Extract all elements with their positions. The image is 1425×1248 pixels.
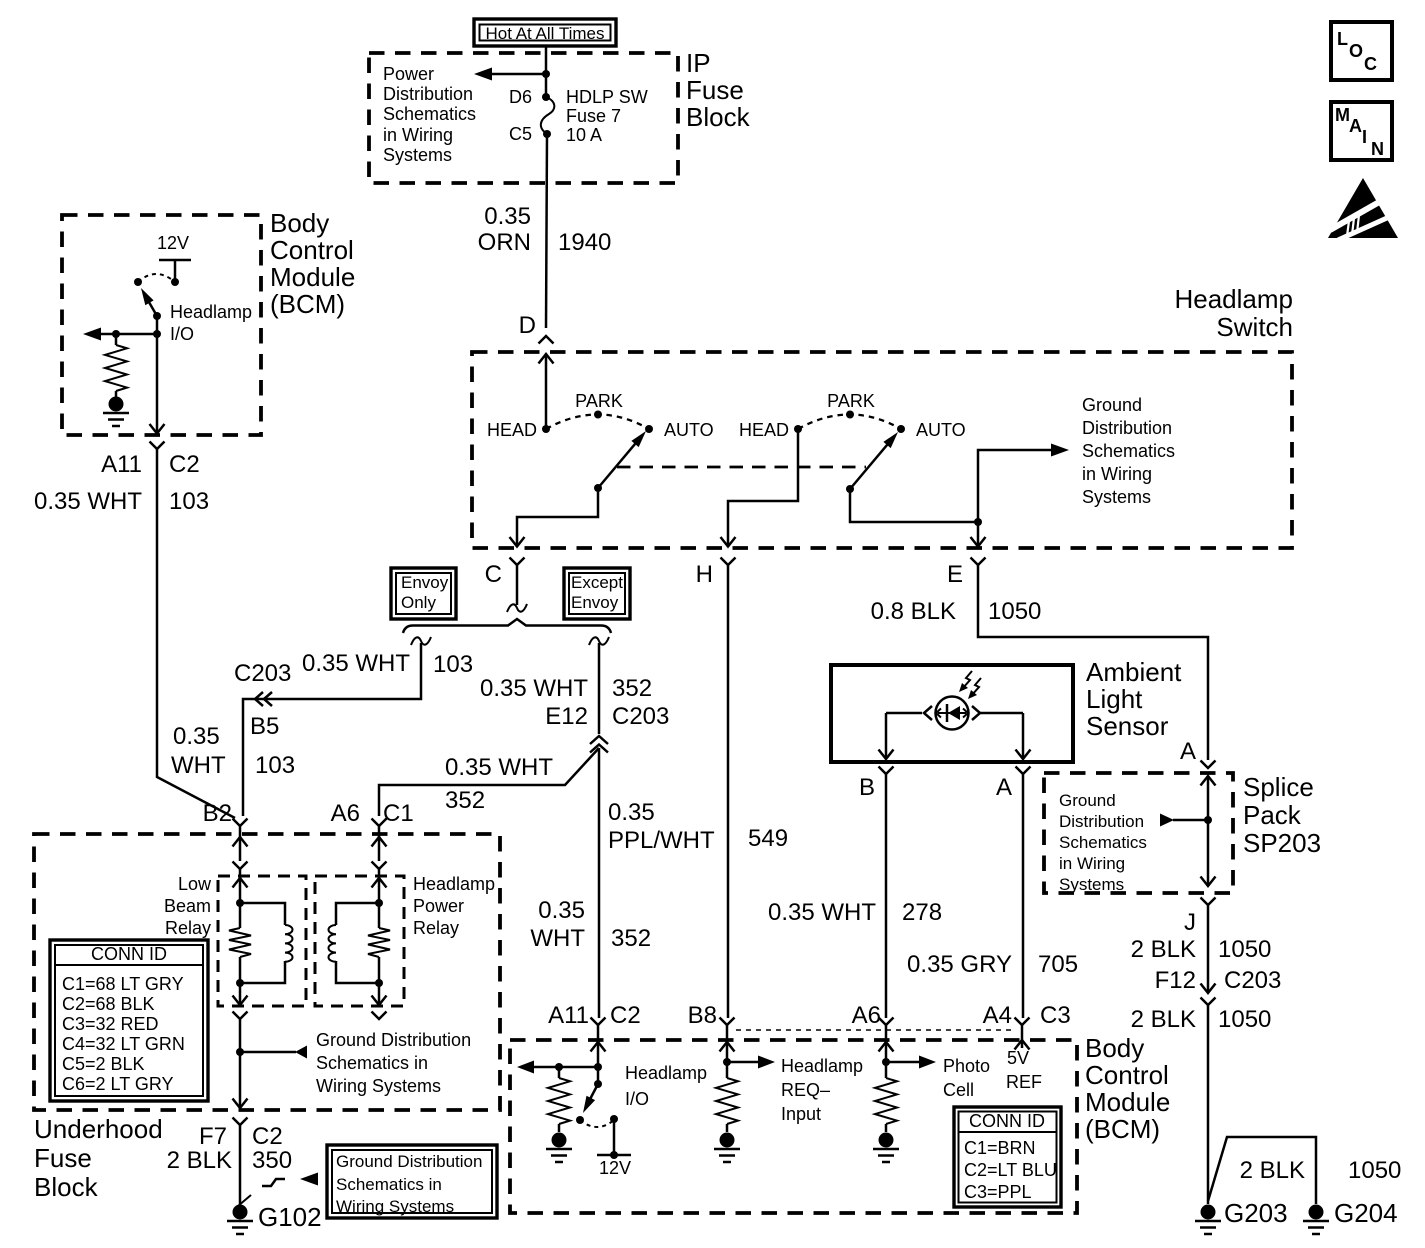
reference arrow right — [1051, 444, 1069, 457]
wire to junction — [233, 1019, 248, 1108]
svg-text:A11: A11 — [101, 451, 142, 478]
svg-text:0.35 WHT: 0.35 WHT — [34, 488, 142, 515]
branch wire to A6/C1 underhood — [379, 748, 599, 816]
node HEAD 1 — [487, 420, 550, 440]
svg-text:1050: 1050 — [1348, 1157, 1401, 1184]
connector B8 — [688, 1002, 735, 1042]
connector C — [485, 558, 525, 589]
connector J — [1184, 898, 1216, 937]
LOC legend box — [1331, 22, 1392, 80]
svg-text:M: M — [1335, 105, 1350, 125]
svg-text:12V: 12V — [157, 233, 189, 253]
hp relay winding resistor — [368, 869, 390, 983]
svg-text:103: 103 — [255, 752, 295, 779]
svg-text:Only: Only — [401, 593, 436, 612]
svg-text:(BCM): (BCM) — [270, 289, 345, 319]
svg-text:C203: C203 — [234, 660, 291, 687]
svg-text:Block: Block — [686, 102, 751, 132]
svg-text:Ground Distribution: Ground Distribution — [336, 1152, 482, 1171]
relay exit arrow — [233, 983, 248, 1005]
wire label 2 BLK 1050 second — [1131, 1006, 1272, 1033]
svg-text:Envoy: Envoy — [401, 573, 449, 592]
svg-text:0.35: 0.35 — [484, 203, 531, 230]
svg-text:H: H — [696, 561, 713, 588]
svg-text:Ground Distribution: Ground Distribution — [316, 1030, 471, 1050]
svg-text:HEAD: HEAD — [739, 420, 789, 440]
svg-text:Ground: Ground — [1082, 395, 1142, 415]
svg-text:WHT: WHT — [530, 925, 585, 952]
svg-text:D6: D6 — [509, 87, 532, 107]
svg-text:B5: B5 — [250, 713, 279, 740]
pull resistor A6 — [873, 1078, 899, 1162]
svg-text:C1=68 LT GRY: C1=68 LT GRY — [62, 974, 184, 994]
svg-text:C: C — [485, 561, 502, 588]
svg-text:CONN ID: CONN ID — [91, 944, 167, 964]
note box Ground Distribution Schematics — [327, 1145, 497, 1218]
svg-text:(BCM): (BCM) — [1085, 1114, 1160, 1144]
svg-text:C2=LT BLU: C2=LT BLU — [964, 1160, 1057, 1180]
svg-text:Cell: Cell — [943, 1080, 974, 1100]
svg-text:I/O: I/O — [170, 324, 194, 344]
Underhood Fuse Block title — [34, 1114, 163, 1202]
ground G102 — [227, 1202, 322, 1234]
break squiggle left branch — [411, 637, 431, 645]
connector A4 C3 — [983, 1002, 1071, 1042]
connector A11/C2 — [101, 442, 200, 479]
wire label 0.35 WHT 352 branch — [445, 754, 553, 814]
labels C203 / 0.35 WHT / 103 — [234, 650, 473, 687]
svg-text:A: A — [996, 774, 1012, 801]
wire HEAD2 to H — [721, 429, 799, 547]
Low Beam Relay label — [164, 874, 212, 938]
svg-text:in Wiring: in Wiring — [383, 125, 453, 145]
svg-text:C2: C2 — [252, 1123, 283, 1150]
svg-text:Relay: Relay — [413, 918, 459, 938]
svg-text:5V: 5V — [1007, 1048, 1029, 1068]
svg-text:103: 103 — [169, 488, 209, 515]
inline connector C203 double chevron — [255, 692, 272, 706]
label box Except Envoy — [564, 568, 630, 619]
svg-text:350: 350 — [252, 1147, 292, 1174]
svg-text:in Wiring: in Wiring — [1059, 854, 1125, 873]
junction nodes — [375, 899, 383, 987]
svg-text:2 BLK: 2 BLK — [1131, 1006, 1196, 1033]
svg-text:Systems: Systems — [1059, 875, 1124, 894]
connector A splice — [1180, 738, 1216, 768]
Headlamp Switch title — [1174, 284, 1293, 342]
svg-text:PARK: PARK — [827, 391, 875, 411]
svg-text:C4=32 LT GRN: C4=32 LT GRN — [62, 1034, 185, 1054]
svg-text:Pack: Pack — [1243, 800, 1302, 830]
Photo Cell label — [943, 1056, 990, 1100]
node PARK 1 — [575, 391, 623, 419]
svg-text:2 BLK: 2 BLK — [1240, 1157, 1305, 1184]
svg-text:2 BLK: 2 BLK — [167, 1147, 232, 1174]
connector H — [696, 558, 736, 589]
svg-text:Schematics: Schematics — [383, 104, 476, 124]
connector F7 C2 — [199, 1118, 283, 1151]
svg-text:Relay: Relay — [165, 918, 211, 938]
svg-text:Body: Body — [270, 208, 329, 238]
svg-text:B: B — [859, 774, 875, 801]
svg-text:C5=2 BLK: C5=2 BLK — [62, 1054, 145, 1074]
reference arrow left — [83, 328, 101, 341]
wire label 2 BLK 1050 ground branch — [1240, 1157, 1402, 1184]
ESD warning triangle — [1328, 178, 1398, 240]
svg-text:Systems: Systems — [383, 145, 452, 165]
connector A6 — [852, 1002, 894, 1042]
svg-text:C1: C1 — [383, 800, 414, 827]
svg-text:E: E — [947, 561, 963, 588]
svg-text:B8: B8 — [688, 1002, 717, 1029]
svg-text:Light: Light — [1086, 684, 1143, 714]
IP fuse block dashed box — [369, 53, 678, 183]
wire label 0.35 WHT 352 — [480, 675, 652, 702]
svg-text:Splice: Splice — [1243, 772, 1314, 802]
switch throw node — [134, 278, 142, 286]
svg-text:Control: Control — [270, 235, 354, 265]
wire label 0.8 BLK 1050 — [871, 598, 1042, 625]
svg-text:Beam: Beam — [164, 896, 211, 916]
svg-text:Distribution: Distribution — [1082, 418, 1172, 438]
svg-text:0.35: 0.35 — [173, 723, 220, 750]
wire from Hot At All Times down — [545, 46, 548, 97]
svg-text:C203: C203 — [1224, 967, 1281, 994]
svg-text:WHT: WHT — [171, 752, 226, 779]
svg-text:0.35: 0.35 — [538, 897, 585, 924]
svg-text:1050: 1050 — [1218, 936, 1271, 963]
svg-text:C5: C5 — [509, 124, 532, 144]
svg-text:2 BLK: 2 BLK — [1131, 936, 1196, 963]
svg-text:A4: A4 — [983, 1002, 1012, 1029]
dashed throw arc — [138, 274, 175, 282]
svg-text:AUTO: AUTO — [916, 420, 966, 440]
pull resistor — [105, 334, 127, 391]
IP Fuse Block title — [686, 48, 751, 132]
internal reference wire left — [517, 1061, 598, 1074]
svg-text:1050: 1050 — [988, 598, 1041, 625]
ambient light sensor box — [831, 665, 1073, 762]
hp relay exit chevron — [372, 1012, 387, 1020]
svg-text:A11: A11 — [548, 1002, 589, 1029]
svg-text:Wiring Systems: Wiring Systems — [316, 1076, 441, 1096]
wire label 0.35 GRY 705 — [907, 951, 1078, 978]
svg-text:C3: C3 — [1040, 1002, 1071, 1029]
svg-text:C2=68 BLK: C2=68 BLK — [62, 994, 155, 1014]
pin D — [519, 312, 554, 344]
note Ground Distribution inside underhood — [316, 1030, 471, 1096]
splice pack dashed box — [1044, 773, 1233, 893]
svg-text:N: N — [1371, 139, 1384, 159]
junction nodes — [112, 330, 120, 338]
svg-text:G204: G204 — [1334, 1198, 1398, 1228]
svg-text:Except: Except — [571, 573, 623, 592]
D entry arrow into switch — [539, 354, 554, 429]
branch wire to G204 — [1208, 1137, 1316, 1204]
Headlamp I/O label — [170, 302, 252, 344]
svg-text:Input: Input — [781, 1104, 821, 1124]
relay exit chevron — [233, 1012, 248, 1020]
wire label 0.35 WHT 278 — [768, 899, 942, 926]
mechanical link dashed — [617, 466, 866, 469]
svg-text:Systems: Systems — [1082, 487, 1151, 507]
fuse value label — [566, 87, 648, 145]
hp relay exit arrow — [372, 983, 387, 1005]
A11 entry arrow and wire — [591, 1042, 606, 1084]
svg-text:Headlamp: Headlamp — [413, 874, 495, 894]
headlamp power relay dashed box — [315, 876, 404, 1006]
pins A6 C1 — [331, 800, 414, 827]
underhood fuse block dashed box — [34, 834, 500, 1110]
relay connector chevron — [233, 862, 248, 870]
switch arm to 12V — [576, 1080, 602, 1124]
svg-text:Wiring Systems: Wiring Systems — [336, 1197, 454, 1216]
note Power Distribution Schematics in Wiring Systems — [383, 64, 476, 165]
svg-text:A: A — [1180, 738, 1196, 765]
svg-text:Module: Module — [1085, 1087, 1170, 1117]
wire label 0.35 WHT 352 vertical — [530, 897, 651, 952]
svg-text:in Wiring: in Wiring — [1082, 464, 1152, 484]
svg-text:352: 352 — [612, 675, 652, 702]
lead down to A — [1016, 713, 1031, 759]
svg-text:Ambient: Ambient — [1086, 657, 1182, 687]
svg-text:G203: G203 — [1224, 1198, 1288, 1228]
photodiode — [936, 697, 969, 730]
pin A6 C1 entry — [372, 819, 387, 827]
svg-text:PPL/WHT: PPL/WHT — [608, 827, 715, 854]
ground inside BCM — [103, 391, 129, 426]
wire label 0.35 ORN 1940 — [478, 203, 612, 256]
svg-text:IP: IP — [686, 48, 711, 78]
Splice Pack SP203 title — [1243, 772, 1321, 858]
svg-text:Headlamp: Headlamp — [625, 1063, 707, 1083]
svg-text:Power: Power — [383, 64, 434, 84]
svg-text:A: A — [1349, 116, 1362, 136]
BCM title — [1085, 1033, 1170, 1144]
headlamp req reference arrow — [727, 1056, 775, 1069]
svg-text:HDLP SW: HDLP SW — [566, 87, 648, 107]
internal ground reference wire — [978, 450, 1052, 522]
connector B — [859, 767, 894, 802]
pull resistor A11 — [548, 1067, 570, 1132]
BCM title — [270, 208, 355, 319]
strap mark — [238, 1195, 251, 1206]
svg-text:REQ–: REQ– — [781, 1080, 830, 1100]
svg-text:J: J — [1184, 909, 1196, 936]
svg-text:C203: C203 — [612, 703, 669, 730]
svg-text:A6: A6 — [852, 1002, 881, 1029]
svg-text:0.35 WHT: 0.35 WHT — [768, 899, 876, 926]
dashed throw arc 2 — [798, 415, 901, 430]
svg-text:Photo: Photo — [943, 1056, 990, 1076]
svg-text:Fuse 7: Fuse 7 — [566, 106, 621, 126]
Headlamp REQ-Input label — [781, 1056, 863, 1124]
svg-text:L: L — [1337, 29, 1348, 49]
light rays — [959, 671, 981, 699]
splice note text — [1059, 791, 1147, 894]
svg-text:Schematics: Schematics — [1059, 833, 1147, 852]
svg-text:C3=PPL: C3=PPL — [964, 1182, 1032, 1202]
svg-text:Schematics in: Schematics in — [336, 1175, 442, 1194]
wire fuse to D — [546, 134, 547, 328]
inline connector F12 C203 — [1155, 967, 1282, 1005]
MAIN legend box — [1331, 102, 1392, 160]
dashed throw arc 1 — [546, 415, 649, 430]
wire arm2 to E — [850, 489, 986, 547]
wire E12 junction down to BCM — [598, 748, 601, 1018]
wire label 0.35 PPL/WHT 549 — [608, 799, 788, 854]
J wire down — [1207, 905, 1210, 992]
B2 entry arrow — [233, 826, 248, 861]
svg-text:Distribution: Distribution — [1059, 812, 1144, 831]
B8 entry arrow and wire — [720, 1042, 735, 1078]
svg-text:C3=32 RED: C3=32 RED — [62, 1014, 159, 1034]
svg-text:Fuse: Fuse — [686, 75, 744, 105]
pin B2 — [203, 800, 248, 827]
12V supply — [597, 1115, 631, 1178]
svg-text:F7: F7 — [199, 1123, 227, 1150]
junction nodes — [236, 899, 244, 987]
CONN ID table underhood — [50, 940, 208, 1101]
svg-text:I: I — [1362, 127, 1367, 147]
svg-text:SP203: SP203 — [1243, 828, 1321, 858]
wire label 0.35 WHT 103 — [171, 723, 295, 779]
svg-text:B2: B2 — [203, 800, 232, 827]
pull resistor B8 — [714, 1078, 740, 1162]
headlamp switch dashed box — [472, 352, 1292, 548]
svg-text:C: C — [1364, 54, 1377, 74]
fuse HDLP SW Fuse 7 10A — [541, 97, 555, 138]
svg-text:705: 705 — [1038, 951, 1078, 978]
svg-text:Low: Low — [178, 874, 212, 894]
ground under resistor — [546, 1133, 572, 1163]
wire A11 down to B2 — [157, 449, 235, 818]
relay connector chevron 2 — [372, 862, 387, 870]
switch arm headlamp I/O — [141, 288, 161, 320]
wire C down — [516, 565, 519, 605]
svg-text:Schematics: Schematics — [1082, 441, 1175, 461]
splice internal wire — [1201, 776, 1216, 886]
ground G203 — [1195, 1198, 1288, 1234]
svg-text:G102: G102 — [258, 1202, 322, 1232]
svg-text:Block: Block — [34, 1172, 99, 1202]
Headlamp Power Relay label — [413, 874, 495, 938]
svg-text:ORN: ORN — [478, 229, 531, 256]
svg-text:352: 352 — [445, 787, 485, 814]
svg-text:C2: C2 — [169, 451, 200, 478]
svg-text:E12: E12 — [545, 703, 588, 730]
svg-text:Sensor: Sensor — [1086, 711, 1169, 741]
svg-text:Headlamp: Headlamp — [781, 1056, 863, 1076]
svg-text:Hot At All Times: Hot At All Times — [485, 24, 604, 43]
junction node — [542, 70, 550, 78]
connector link dashed line — [736, 1029, 1016, 1031]
wire arm1 to C — [510, 488, 599, 547]
low beam relay coil parallel — [240, 903, 293, 983]
svg-text:HEAD: HEAD — [487, 420, 537, 440]
A6 entry arrow — [372, 826, 387, 861]
svg-text:C2: C2 — [610, 1002, 641, 1029]
svg-text:0.35 GRY: 0.35 GRY — [907, 951, 1012, 978]
node AUTO 1 — [645, 420, 714, 440]
sensor leads — [886, 706, 932, 720]
A6 entry arrow and wire — [879, 1042, 894, 1078]
svg-text:Module: Module — [270, 262, 355, 292]
ground reference wire — [240, 1046, 307, 1059]
wire right branch down — [598, 643, 601, 734]
svg-text:Power: Power — [413, 896, 464, 916]
node AUTO 2 — [897, 420, 966, 440]
svg-text:Distribution: Distribution — [383, 84, 473, 104]
photo cell reference arrow — [886, 1056, 936, 1069]
svg-text:549: 549 — [748, 825, 788, 852]
node HEAD 2 — [739, 420, 802, 440]
svg-text:0.35 WHT: 0.35 WHT — [445, 754, 553, 781]
BCM dashed box bottom — [510, 1040, 1077, 1213]
svg-text:0.35: 0.35 — [608, 799, 655, 826]
svg-text:12V: 12V — [599, 1158, 631, 1178]
svg-text:REF: REF — [1006, 1072, 1042, 1092]
Ambient Light Sensor title — [1086, 657, 1182, 741]
Headlamp I/O label — [625, 1063, 707, 1109]
break jog symbol — [262, 1179, 285, 1186]
wire label 2 BLK 1050 — [1131, 936, 1272, 963]
svg-text:C1=BRN: C1=BRN — [964, 1138, 1036, 1158]
break squiggle right branch — [589, 637, 609, 645]
svg-text:Body: Body — [1085, 1033, 1144, 1063]
svg-text:Headlamp: Headlamp — [170, 302, 252, 322]
5V REF label — [1006, 1048, 1042, 1092]
svg-text:O: O — [1349, 41, 1363, 61]
lead down to B — [879, 713, 894, 759]
svg-text:A6: A6 — [331, 800, 360, 827]
svg-text:278: 278 — [902, 899, 942, 926]
B wire down — [885, 774, 888, 1018]
svg-text:I/O: I/O — [625, 1089, 649, 1109]
svg-text:1050: 1050 — [1218, 1006, 1271, 1033]
inline connector E12/C203 double chevron — [590, 736, 608, 753]
break squiggle on C wire — [507, 604, 527, 612]
reference arrow to ground note — [300, 1173, 318, 1186]
svg-text:F12: F12 — [1155, 967, 1196, 994]
svg-text:103: 103 — [433, 651, 473, 678]
label box Envoy Only — [391, 568, 456, 619]
wire to G203 — [1207, 1005, 1210, 1204]
svg-text:Ground: Ground — [1059, 791, 1116, 810]
wire to power distribution arrow — [492, 73, 546, 76]
node PARK 2 — [827, 391, 875, 419]
wire left branch to C203 — [243, 643, 421, 816]
svg-text:C6=2 LT GRY: C6=2 LT GRY — [62, 1074, 174, 1094]
svg-text:0.35 WHT: 0.35 WHT — [302, 650, 410, 677]
svg-text:Switch: Switch — [1216, 312, 1293, 342]
switch arm 2 — [846, 432, 898, 493]
svg-text:Control: Control — [1085, 1060, 1169, 1090]
low beam relay dashed box — [218, 876, 306, 1006]
svg-text:1940: 1940 — [558, 229, 611, 256]
connector A — [996, 767, 1031, 802]
reference arrow left — [474, 68, 492, 81]
wire pivot down and out of box — [156, 316, 159, 435]
svg-text:Underhood: Underhood — [34, 1114, 163, 1144]
A wire down — [1022, 774, 1025, 1018]
ground G204 — [1303, 1198, 1398, 1234]
splice reference arrow — [1160, 814, 1208, 827]
svg-text:Headlamp: Headlamp — [1174, 284, 1293, 314]
svg-text:CONN ID: CONN ID — [969, 1111, 1045, 1131]
svg-text:Fuse: Fuse — [34, 1143, 92, 1173]
svg-text:D: D — [519, 312, 536, 339]
